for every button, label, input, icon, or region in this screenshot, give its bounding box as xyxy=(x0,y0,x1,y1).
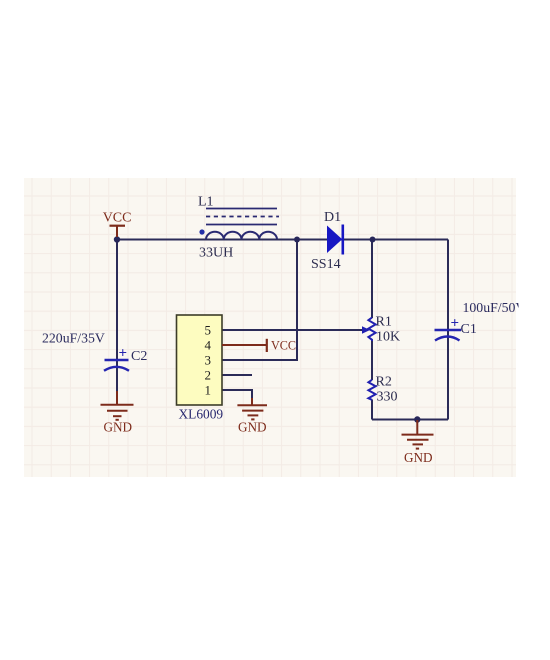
svg-text:+: + xyxy=(451,316,460,332)
svg-text:330: 330 xyxy=(377,390,398,405)
svg-text:R2: R2 xyxy=(376,375,392,390)
svg-text:VCC: VCC xyxy=(271,338,296,352)
svg-text:XL6009: XL6009 xyxy=(179,407,224,422)
svg-text:1: 1 xyxy=(205,383,212,398)
svg-text:GND: GND xyxy=(404,450,433,465)
svg-text:C2: C2 xyxy=(131,349,147,364)
svg-text:GND: GND xyxy=(104,419,133,434)
svg-text:C1: C1 xyxy=(461,322,477,337)
svg-text:5: 5 xyxy=(205,323,212,338)
svg-text:33UH: 33UH xyxy=(199,246,233,261)
svg-text:+: + xyxy=(119,346,128,362)
svg-text:D1: D1 xyxy=(324,210,341,225)
svg-text:100uF/50V: 100uF/50V xyxy=(463,300,526,315)
svg-text:R1: R1 xyxy=(376,315,392,330)
svg-text:10K: 10K xyxy=(376,330,400,345)
svg-text:L1: L1 xyxy=(198,195,214,210)
svg-text:4: 4 xyxy=(205,338,212,353)
svg-text:SS14: SS14 xyxy=(311,257,341,272)
svg-text:220uF/35V: 220uF/35V xyxy=(42,331,105,346)
svg-text:2: 2 xyxy=(205,368,212,383)
svg-text:3: 3 xyxy=(205,353,212,368)
svg-text:GND: GND xyxy=(238,420,267,435)
svg-text:VCC: VCC xyxy=(103,211,132,226)
